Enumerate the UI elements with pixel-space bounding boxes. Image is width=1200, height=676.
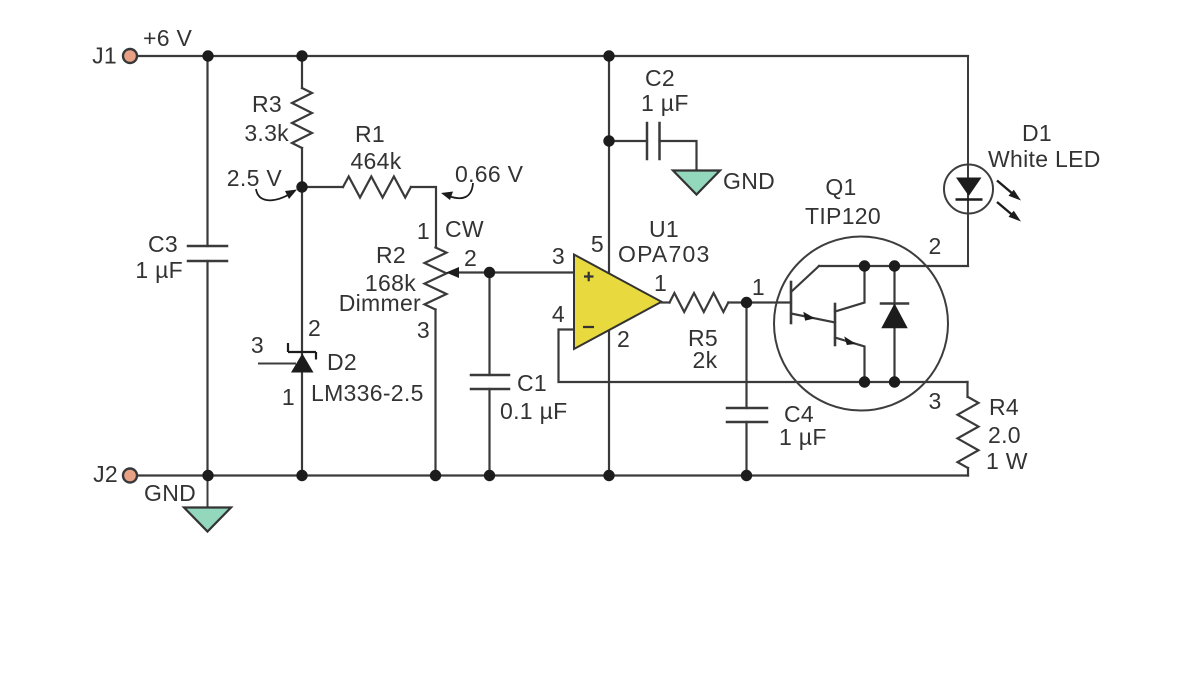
LED D1: [944, 56, 993, 266]
curved arrow 2.5V: [256, 189, 297, 200]
wire C4 branch vertical: [745, 303, 747, 476]
svg-text:U1: U1: [649, 216, 679, 242]
svg-text:TIP120: TIP120: [805, 203, 881, 229]
svg-text:C2: C2: [645, 65, 675, 91]
svg-text:C1: C1: [517, 370, 547, 396]
wire top +6V rail: [136, 55, 968, 57]
svg-text:R3: R3: [252, 91, 282, 117]
svg-text:R4: R4: [989, 394, 1019, 420]
capacitor C1: [471, 375, 509, 389]
diode internal to Q1: [893, 266, 895, 382]
svg-text:2k: 2k: [693, 347, 718, 373]
arrowhead Q1 second emitter: [844, 336, 856, 345]
svg-text:1 µF: 1 µF: [641, 90, 689, 116]
svg-text:0.66 V: 0.66 V: [455, 161, 524, 187]
svg-text:1: 1: [417, 218, 430, 244]
wire R1 row with corner down to R2: [302, 187, 436, 248]
wire C1 branch vertical: [488, 273, 490, 476]
resistor R4: [958, 397, 979, 468]
svg-text:1: 1: [752, 274, 765, 300]
svg-text:GND: GND: [144, 480, 196, 506]
svg-text:464k: 464k: [350, 148, 401, 174]
svg-text:1 µF: 1 µF: [135, 257, 183, 283]
svg-text:Dimmer: Dimmer: [339, 290, 421, 316]
svg-text:0.1 µF: 0.1 µF: [500, 398, 567, 424]
transistor Q1 package circle: [774, 237, 948, 411]
wire Q1 base into package: [747, 301, 792, 303]
svg-text:White LED: White LED: [988, 146, 1101, 172]
resistor R5: [670, 293, 729, 312]
wire R2 wiper to node: [453, 271, 490, 273]
svg-text:R2: R2: [376, 242, 406, 268]
diode triangle inside Q1: [883, 305, 907, 328]
svg-text:3: 3: [928, 388, 941, 414]
connector J1: [123, 49, 137, 63]
wire C2 branch: [609, 141, 697, 171]
svg-text:D2: D2: [327, 349, 357, 375]
svg-text:OPA703: OPA703: [618, 241, 710, 267]
wiper arrowhead of R2: [446, 267, 459, 278]
ground symbol at J2: [184, 476, 231, 532]
svg-text:2: 2: [617, 326, 630, 352]
transistor Q1 first BJT: [790, 282, 793, 323]
zener reference D2 LM336-2.5: [258, 343, 316, 373]
resistor R1: [343, 177, 411, 198]
svg-text:J1: J1: [92, 43, 117, 69]
connector J2: [123, 469, 137, 483]
svg-text:Q1: Q1: [825, 174, 856, 200]
svg-text:LM336-2.5: LM336-2.5: [311, 380, 424, 406]
transistor Q1 second BJT: [834, 304, 837, 345]
svg-text:J2: J2: [93, 461, 118, 487]
resistor R3: [292, 88, 312, 148]
svg-text:3: 3: [552, 243, 565, 269]
svg-text:3: 3: [251, 332, 264, 358]
svg-text:2: 2: [464, 245, 477, 271]
svg-text:D1: D1: [1022, 120, 1052, 146]
svg-text:GND: GND: [723, 168, 775, 194]
svg-text:C3: C3: [148, 231, 178, 257]
svg-text:3.3k: 3.3k: [244, 120, 289, 146]
op-amp U1 triangle: [574, 255, 662, 350]
wire bottom GND rail: [136, 474, 968, 476]
wire R3/D2 branch vertical: [301, 56, 303, 476]
arrowhead Q1 first emitter: [803, 312, 815, 321]
capacitor C4: [727, 408, 767, 422]
svg-text:1: 1: [282, 384, 295, 410]
svg-text:1: 1: [654, 270, 667, 296]
svg-text:4: 4: [552, 301, 565, 327]
potentiometer R2 element: [425, 248, 447, 310]
ground symbol at C2: [673, 171, 720, 195]
wire R4 branch with corner from emitter node: [966, 382, 969, 476]
svg-text:3: 3: [417, 317, 430, 343]
svg-text:CW: CW: [445, 216, 484, 242]
svg-text:2: 2: [308, 315, 321, 341]
LED light arrows: [997, 181, 1021, 222]
svg-text:2.5 V: 2.5 V: [227, 165, 283, 191]
wire R5 to Q1 base node: [729, 301, 747, 303]
capacitor C2: [647, 123, 660, 159]
wire Q1 collector node: [819, 265, 968, 267]
svg-text:2: 2: [928, 233, 941, 259]
svg-text:+6 V: +6 V: [143, 25, 193, 51]
curved arrow 0.66V: [441, 183, 473, 200]
svg-text:2.0: 2.0: [988, 422, 1021, 448]
wire C3 branch vertical: [206, 56, 208, 476]
wire op-amp feedback (pin4 to emitter node): [559, 330, 968, 383]
wire op-amp output to R5: [662, 301, 670, 303]
svg-text:1 µF: 1 µF: [779, 424, 827, 450]
svg-text:1 W: 1 W: [986, 448, 1028, 474]
wire wiper node to op-amp pin 3: [490, 271, 575, 273]
svg-text:5: 5: [591, 231, 604, 257]
svg-text:R1: R1: [355, 121, 385, 147]
wire R2 bottom to rail: [434, 310, 436, 476]
wire main V+ / V- vertical (x=609): [608, 56, 610, 476]
capacitor C3: [188, 246, 227, 261]
